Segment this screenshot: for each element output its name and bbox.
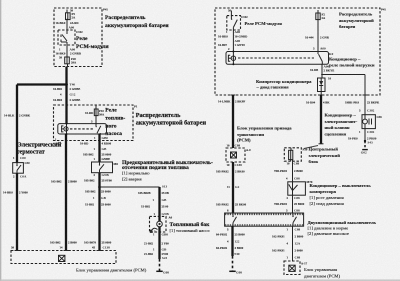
wire: AC relay switch output: [321, 64, 323, 78]
AC relay coil: [228, 55, 230, 61]
pin 45 / C138: [97, 250, 102, 252]
fuse F10 inside enclosure: [95, 105, 97, 109]
wire relay to fuse F20: [66, 45, 68, 57]
pin ticks on box2 bottom edge: [231, 94, 236, 96]
relay switch contact: [95, 124, 97, 127]
central electrical block fuse dashed box: [284, 148, 301, 161]
ground G28: [156, 270, 162, 272]
relay coil: [62, 126, 64, 132]
wire: thermostat down to PCM pin 30: [16, 173, 18, 250]
fuel pump relay body (rounded): [58, 124, 107, 134]
in-line connector C188 dashed box: [226, 148, 245, 162]
relay K1 PCM-module (left, dashed): [58, 30, 75, 45]
wire: continues down to pressure switch: [232, 162, 234, 213]
fuel pump relay dashed enclosure: [54, 105, 134, 141]
wire: AC feed bold down to central electrical block: [320, 95, 322, 144]
scan edge artifacts: [0, 0, 2, 281]
wire: PCM relay output down: [232, 30, 234, 52]
wire: left branch down to thermostat: [16, 85, 18, 163]
ground G200: [229, 270, 235, 272]
splice S43: [364, 140, 366, 142]
fuel gauge sender hook: [152, 228, 158, 232]
A/C compressor cut-off switch box: [288, 182, 306, 195]
wire: branch to clutch feed: [321, 74, 365, 76]
relay core dashed line: [70, 128, 94, 130]
dashed ground segment: [159, 259, 161, 271]
pin stub above fuse F5: [66, 10, 68, 13]
fuel pump motor circle: [157, 221, 163, 227]
wire: battery feed down from left box: [65, 67, 67, 124]
pin 30: [15, 250, 20, 252]
wire: fuse F2 down to AC relay: [317, 20, 319, 52]
wire exits box bottom: [67, 64, 69, 67]
wire: dual switch down to PCM (right): [292, 226, 294, 261]
wire: shutoff switch down to PCM: [98, 173, 100, 251]
AC relay core dashed line: [238, 57, 314, 59]
compressor clutch coil box: [362, 115, 375, 129]
jog into central block: [319, 143, 324, 145]
wire: central block down to compressor switch: [292, 161, 294, 182]
dual switch contact (right): [292, 213, 294, 216]
wire: branch left at y84: [17, 83, 67, 85]
wire: compressor switch down to dual switch: [292, 195, 294, 213]
splice S40 junction dot: [65, 83, 68, 86]
wire: clutch feed down: [364, 95, 366, 115]
A/C wide-open-throttle relay body (horizontal): [226, 52, 329, 65]
suppression diode box: [318, 78, 326, 92]
AC relay switch contact: [317, 52, 319, 55]
wire: PCM power feed (middle bold): [232, 95, 234, 148]
splice junction to fuel pump: [98, 186, 101, 189]
fuse F20 20A: [65, 57, 70, 64]
electric thermostat switch box: [13, 163, 24, 174]
wire: diode to box bottom: [320, 92, 322, 96]
wire: coil return down to PCM pin 14: [65, 134, 67, 251]
wire: clutch return to ground: [364, 129, 366, 140]
battery junction box (right) dashed enclosure: [215, 8, 380, 95]
fuse F2 (right box): [317, 10, 319, 13]
pin 14: [64, 250, 69, 252]
PCM internal connector symbol: [59, 255, 65, 261]
engine control module (PCM) dashed box (left): [11, 251, 116, 264]
wire fuse to relay: [66, 19, 68, 30]
battery junction box (left) dashed enclosure: [54, 8, 102, 67]
dual switch contact (left): [232, 213, 234, 216]
fuel tank dashed box: [150, 216, 167, 232]
relay K2 PCM-module (right, dashed): [227, 16, 241, 30]
pin stub above PCM relay: [230, 11, 232, 16]
fuse F5 2A: [66, 13, 71, 20]
wire: pump relay switch output down: [98, 134, 100, 162]
engine control module (PCM) dashed box (right): [284, 261, 300, 275]
wire: branch right at y186 to fuel pump: [100, 186, 160, 188]
dual pressure switch wide box: [225, 213, 304, 226]
inertia fuel shutoff switch box: [92, 162, 113, 173]
wire: fuel pump feed from junction: [158, 187, 160, 222]
